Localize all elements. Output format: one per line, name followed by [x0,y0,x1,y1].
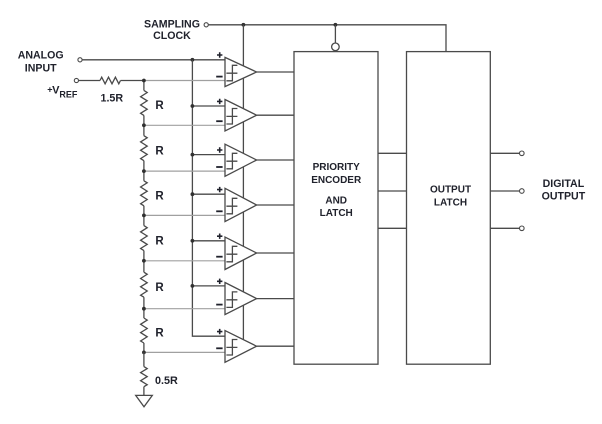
wire encoder to output latch bit 3 [378,227,407,229]
wire comparator 4 output [257,204,294,206]
inverter bubble on priority encoder clock input [332,43,340,51]
wire + input branch comparator 6 [192,285,225,287]
svg-text:+VREF: +VREF [47,84,78,99]
label SAMPLING CLOCK [144,18,200,42]
wire ladder tap 1 to comparator 1 - input [144,80,225,82]
resistor R2 [141,136,148,161]
wire ladder tap 7 to comparator 7 - input [144,351,225,353]
wire ladder tap 6 to comparator 6 - input [144,308,225,310]
op-amp comparator U6 [216,279,256,315]
op-amp comparator U7 [216,329,256,362]
label DIGITAL OUTPUT [542,178,586,202]
wire digital output bit 3 [490,227,519,229]
junction clock bus [242,23,246,27]
junction analog bus [191,58,195,62]
svg-text:ENCODER: ENCODER [311,175,362,186]
wire ladder segment 5 [143,261,145,272]
node +VREF terminal [74,78,78,82]
svg-text:LATCH: LATCH [320,208,353,219]
wire encoder to output latch bit 1 [378,152,407,154]
svg-text:R: R [155,145,164,157]
junction ladder tap 1 [142,79,146,83]
junction + branch comparator 2 [191,104,195,108]
svg-text:PRIORITY: PRIORITY [313,162,361,173]
node digital output terminal 3 [520,226,525,231]
wire + input branch comparator 5 [192,240,225,242]
wire comparator 5 output [257,252,294,254]
wire comparator 7 output [257,345,294,347]
resistor 1.5R [100,77,121,84]
wire clock bus down through comparators [242,25,244,342]
resistor R1 [141,90,148,115]
node ANALOG INPUT terminal [78,58,82,62]
wire ladder segment 3 [143,171,145,181]
junction encoder clock branch [334,23,338,27]
junction ladder tap 7 [142,351,146,355]
wire ladder segment 4 [143,215,145,225]
wire comparator 3 output [257,159,294,161]
wire analog bus [192,60,225,336]
wire analog input [82,59,225,61]
wire resistor 1.5R to ladder [121,80,144,82]
wire ladder tap 4 to comparator 4 - input [144,214,225,216]
label ANALOG INPUT [18,49,64,74]
wire ladder segment 6 [143,309,145,318]
output latch block U9 [407,52,491,365]
resistor R6 [141,318,148,343]
junction ladder tap 4 [142,214,146,218]
resistor R5 [141,272,148,297]
svg-text:LATCH: LATCH [434,198,467,209]
junction ladder tap 6 [142,307,146,311]
junction + branch comparator 6 [191,284,195,288]
svg-text:DIGITAL: DIGITAL [543,178,585,190]
node digital output terminal 2 [520,189,525,194]
wire vref to resistor 1.5R [79,80,101,82]
op-amp comparator U3 [216,144,256,176]
op-amp comparator U2 [216,99,256,131]
junction + branch comparator 5 [191,239,195,243]
wire ladder tap 3 to comparator 3 - input [144,170,225,172]
svg-text:SAMPLING: SAMPLING [144,18,200,30]
wire ladder tap 2 to comparator 2 - input [144,124,225,126]
wire digital output bit 1 [490,152,519,154]
svg-text:R: R [155,235,164,247]
svg-text:R: R [155,328,164,340]
wire + input branch comparator 4 [192,193,225,195]
node digital output terminal 1 [520,151,525,156]
junction ladder tap 5 [142,259,146,263]
ground [136,395,153,406]
wire ladder bottom segment [143,352,145,366]
svg-text:R: R [155,190,164,202]
wire comparator 6 output [257,298,294,300]
wire + input branch comparator 3 [192,154,225,156]
resistor R4 [141,226,148,251]
wire ladder segment 1 [143,81,145,91]
svg-text:R: R [155,100,164,112]
resistor 0.5R [141,367,148,387]
svg-text:R: R [155,282,164,294]
svg-text:INPUT: INPUT [25,63,57,75]
junction + branch comparator 4 [191,192,195,196]
wire sampling clock to output latch [208,25,446,52]
wire ladder tap 5 to comparator 5 - input [144,260,225,262]
op-amp comparator U4 [216,187,256,222]
wire ladder segment 2 [143,125,145,135]
op-amp comparator U5 [216,234,256,270]
wire encoder to output latch bit 2 [378,190,407,192]
svg-text:AND: AND [325,196,347,207]
wire comparator 2 output [257,114,294,116]
resistor R3 [141,181,148,206]
junction ladder tap 3 [142,169,146,173]
junction + branch comparator 3 [191,153,195,157]
wire digital output bit 2 [490,190,519,192]
svg-text:OUTPUT: OUTPUT [430,185,471,196]
svg-text:ANALOG: ANALOG [18,49,64,61]
svg-text:OUTPUT: OUTPUT [542,190,586,202]
svg-text:CLOCK: CLOCK [153,30,191,42]
wire comparator 1 output [257,71,294,73]
svg-text:1.5R: 1.5R [101,93,124,105]
node SAMPLING CLOCK terminal [204,23,208,27]
junction ladder tap 2 [142,123,146,127]
label +VREF [47,84,78,99]
wire + input branch comparator 2 [192,105,225,107]
svg-text:0.5R: 0.5R [155,375,178,387]
wire encoder clock branch [334,25,336,43]
priority encoder and latch block U8 [294,52,378,365]
op-amp comparator U1 [216,52,256,86]
